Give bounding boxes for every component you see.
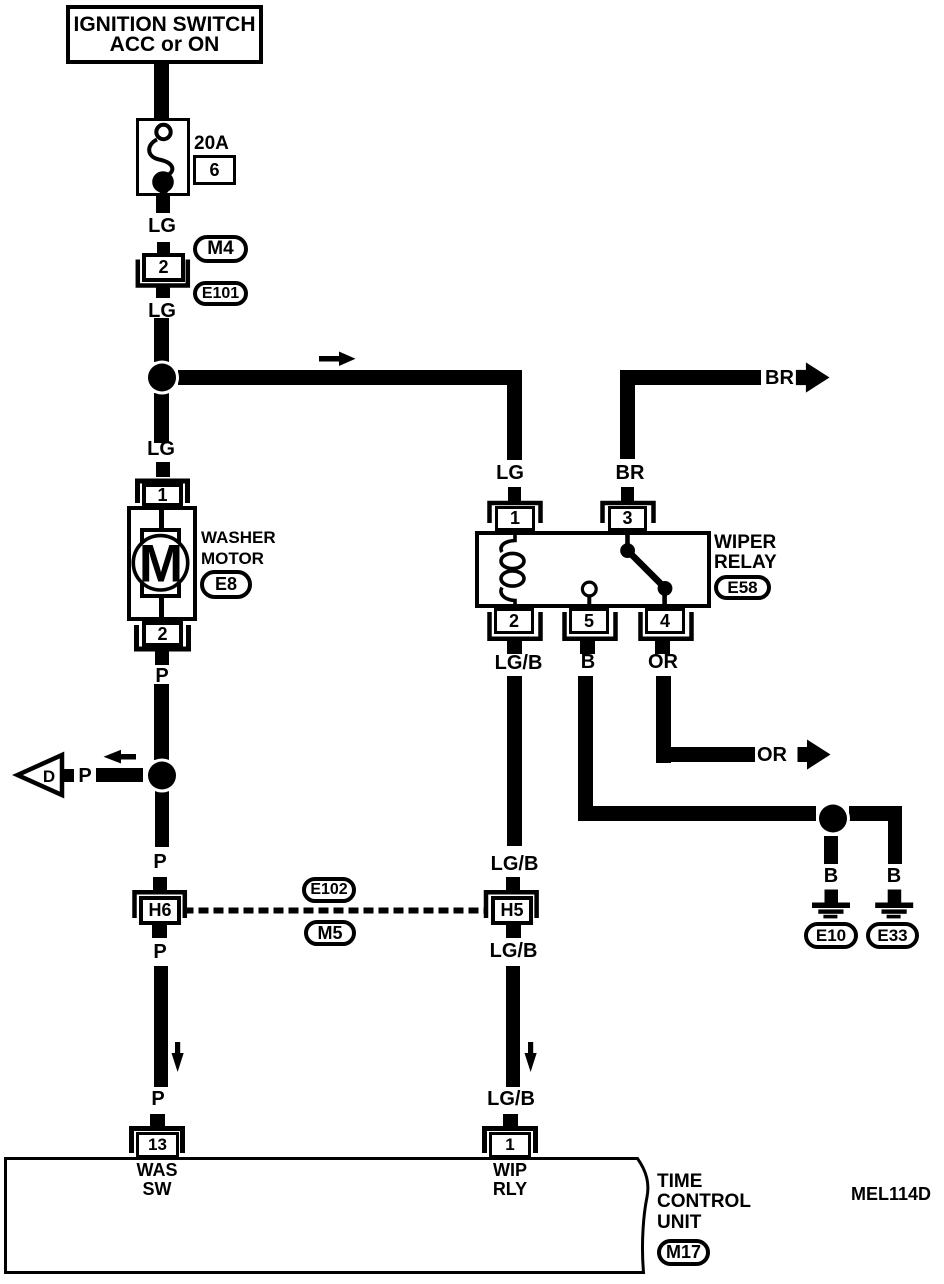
wire label LG bbox=[136, 216, 188, 236]
wire junction C to right drop bbox=[849, 806, 902, 821]
wire H5 to time control unit bbox=[506, 966, 520, 1087]
connector code E102 bbox=[302, 877, 356, 903]
relay pin 2 box bbox=[494, 608, 534, 634]
wire label P bbox=[134, 852, 186, 872]
relay pin 3 box bbox=[608, 506, 647, 531]
connector H5 box bbox=[491, 896, 533, 925]
wire label LG bbox=[136, 301, 188, 321]
terminal 13 stub bbox=[150, 1114, 165, 1128]
wire OR vertical bbox=[656, 676, 671, 763]
stub to page connector D bbox=[63, 769, 74, 782]
connector code E101 bbox=[193, 281, 248, 306]
wire junction B to left branch bbox=[96, 768, 143, 782]
label WASHER MOTOR bbox=[201, 527, 276, 569]
wire junction A down bbox=[154, 393, 169, 443]
connector H5 bracket bbox=[486, 892, 537, 918]
relay pin 1 stub bbox=[508, 487, 521, 503]
relay pin 3 bracket bbox=[603, 503, 654, 523]
wire label P bbox=[136, 666, 188, 686]
wire H6 to time control unit bbox=[154, 966, 168, 1087]
washer motor pin 2 bracket bbox=[137, 625, 189, 649]
label WAS SW bbox=[131, 1161, 183, 1198]
wire junction B down bbox=[155, 790, 169, 847]
connector H6 box bbox=[139, 896, 181, 925]
flow arrow left on branch wire bbox=[104, 750, 137, 764]
flow arrow down left column bbox=[171, 1042, 183, 1072]
washer motor internal lead top bbox=[159, 506, 164, 530]
relay pin 4 bracket bbox=[641, 612, 692, 639]
connector 2 box bbox=[142, 253, 185, 282]
connector 2 bottom stub bbox=[156, 285, 170, 298]
connector 2 top stub bbox=[157, 242, 170, 255]
connector 2 bracket bbox=[138, 260, 188, 286]
relay pin 1 box bbox=[495, 506, 535, 531]
washer motor top stub bbox=[156, 462, 170, 477]
relay pin 2 bracket bbox=[490, 612, 541, 639]
relay pin 4 bottom stub bbox=[655, 641, 670, 654]
connector H6 bracket bbox=[135, 892, 185, 918]
wire label P bbox=[72, 766, 98, 786]
wire B vertical from pin 5 bbox=[578, 676, 593, 821]
connector code E8 bbox=[200, 570, 252, 599]
washer motor armature M bbox=[133, 535, 187, 594]
connector code M4 bbox=[193, 235, 248, 263]
svg-text:D: D bbox=[43, 767, 55, 786]
wire label OR bbox=[637, 652, 689, 672]
drawing code MEL114D bbox=[851, 1184, 931, 1205]
time control unit outline bbox=[6, 1159, 648, 1273]
wire branch down to relay pin 1 bbox=[507, 370, 522, 460]
relay pin 5 bracket bbox=[565, 612, 616, 639]
fuse rating 20A bbox=[194, 133, 229, 155]
wire right ground drop bbox=[888, 806, 902, 864]
wire label B left ground bbox=[805, 866, 857, 886]
ground symbol E10 bbox=[812, 890, 850, 919]
wire LG to junction A bbox=[154, 318, 169, 362]
washer motor internal lead bottom bbox=[159, 596, 164, 621]
wire junction A to branch right bbox=[178, 370, 522, 385]
wire label B right ground bbox=[868, 866, 920, 886]
terminal 1 stub bbox=[503, 1114, 518, 1128]
relay pin 2 bottom stub bbox=[507, 641, 522, 654]
wire label OR at arrow bbox=[757, 744, 787, 767]
wire LG/B pin2 to H5 bbox=[507, 676, 522, 846]
relay pin 1 bracket bbox=[490, 503, 541, 523]
wire ignition to fuse bbox=[154, 62, 169, 118]
connector H6 top stub bbox=[153, 877, 167, 890]
page connector D triangle bbox=[18, 755, 63, 795]
wire label B bbox=[562, 652, 614, 672]
terminal 13 box bbox=[136, 1132, 179, 1158]
ground code E33 bbox=[866, 922, 919, 949]
wire B horizontal to junction C bbox=[578, 806, 816, 821]
wire OR horizontal to arrow bbox=[656, 747, 755, 762]
wire fuse to LG bbox=[156, 196, 170, 213]
harness dashed link H6 to H5 bbox=[184, 908, 487, 914]
washer motor brush frame bbox=[140, 528, 181, 598]
connector H5 top stub bbox=[506, 877, 520, 890]
wire label BR bbox=[604, 463, 656, 483]
svg-text:M: M bbox=[139, 535, 183, 594]
wire label LG relay pin 1 bbox=[484, 463, 536, 483]
wire BR vertical bbox=[620, 370, 635, 459]
connector code M5 bbox=[304, 920, 356, 946]
ground symbol E33 bbox=[875, 890, 913, 919]
OR continuation arrow bbox=[798, 740, 831, 770]
junction B dot bbox=[145, 759, 179, 793]
relay pin 3 stub bbox=[621, 487, 634, 503]
relay coil bbox=[501, 531, 524, 608]
label WIP RLY bbox=[484, 1161, 536, 1198]
washer motor pin 2 bbox=[142, 621, 183, 647]
page connector D letter bbox=[43, 767, 55, 786]
wire motor to junction B bbox=[154, 684, 169, 760]
wire label LG bbox=[135, 439, 187, 459]
wire label LG/B bbox=[481, 1089, 541, 1109]
relay pin 5 box bbox=[569, 608, 609, 634]
washer motor bottom stub bbox=[155, 651, 169, 665]
fuse element symbol bbox=[149, 125, 172, 198]
connector code M17 bbox=[657, 1239, 710, 1266]
wire junction C down to ground bbox=[824, 836, 838, 864]
flow arrow down right column bbox=[525, 1042, 537, 1072]
wire label P bbox=[132, 1089, 184, 1109]
wire label LG/B bbox=[487, 854, 542, 874]
wire BR horizontal to page edge bbox=[620, 370, 761, 385]
terminal 1 box bbox=[489, 1132, 531, 1158]
junction C dot bbox=[816, 802, 850, 836]
ground code E10 bbox=[804, 922, 858, 949]
connector H6 bottom stub bbox=[152, 925, 167, 938]
wiper relay box bbox=[475, 531, 711, 608]
washer motor pin 1 bbox=[142, 483, 183, 507]
washer motor pin 1 bracket bbox=[138, 481, 188, 503]
connector code E58 bbox=[714, 575, 771, 600]
BR continuation arrow bbox=[796, 362, 830, 392]
label WIPER RELAY bbox=[714, 533, 777, 573]
relay pin 5 bottom stub bbox=[580, 641, 595, 654]
connector H5 bottom stub bbox=[506, 925, 521, 938]
fuse number box 6 bbox=[193, 155, 236, 185]
flow arrow right on branch wire bbox=[319, 352, 356, 367]
wire label LG/B bbox=[491, 653, 546, 673]
terminal 13 bracket bbox=[132, 1129, 183, 1154]
fuse box outline bbox=[136, 118, 190, 196]
washer motor body bbox=[127, 506, 197, 621]
relay switch bbox=[620, 531, 672, 608]
relay pin 5 contact bbox=[582, 582, 596, 608]
ignition switch power box bbox=[66, 5, 263, 64]
junction A dot bbox=[145, 361, 179, 395]
wire label BR at arrow bbox=[765, 367, 794, 390]
terminal 1 bracket bbox=[485, 1129, 536, 1154]
wire label P bbox=[134, 942, 186, 962]
label TIME CONTROL UNIT bbox=[657, 1172, 751, 1233]
relay pin 4 box bbox=[645, 608, 685, 634]
wire label LG/B bbox=[486, 941, 541, 961]
